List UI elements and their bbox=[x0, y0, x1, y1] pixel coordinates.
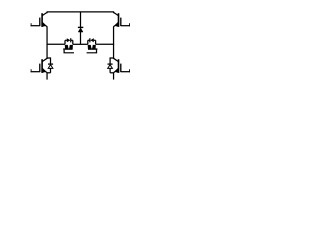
wire right vertical bbox=[113, 26, 115, 59]
transistor Q2 top-right IGBT bbox=[114, 12, 130, 27]
wire center vertical lower bbox=[80, 32, 82, 44]
diode D2 antiparallel on S2 bbox=[90, 38, 94, 42]
wire center vertical upper bbox=[80, 12, 82, 28]
wire middle center segment bbox=[73, 43, 88, 45]
transistor Q1 top-left IGBT bbox=[31, 12, 47, 27]
diode D0 center clamp bbox=[78, 27, 83, 32]
wire bottom-right stub bbox=[113, 73, 115, 80]
wire bottom-left stub bbox=[46, 73, 48, 80]
transistor Q4 bottom-right IGBT bbox=[114, 58, 130, 73]
wire top rail bbox=[47, 11, 115, 13]
diode D4 freewheel bottom-right bbox=[108, 58, 114, 73]
wire middle right segment bbox=[96, 43, 115, 45]
transistor Q3 bottom-left IGBT bbox=[31, 58, 47, 73]
transistor S1 left bidirectional IGBT bbox=[63, 40, 74, 53]
transistor S2 right bidirectional IGBT bbox=[87, 40, 98, 53]
wire middle left segment bbox=[47, 43, 65, 45]
wire left vertical bbox=[46, 26, 48, 59]
diode D1 antiparallel on S1 bbox=[67, 38, 71, 42]
diode D3 freewheel bottom-left bbox=[47, 58, 53, 73]
